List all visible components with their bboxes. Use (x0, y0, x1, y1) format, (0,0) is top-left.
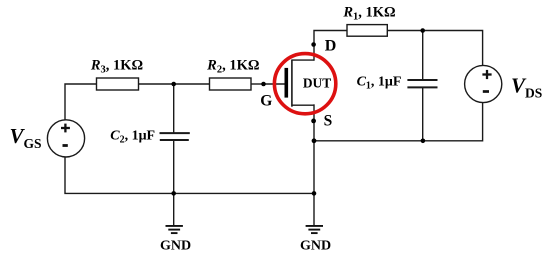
ground GND1 (160, 226, 191, 254)
svg-text:G: G (260, 93, 272, 110)
wire drain up to R1 (314, 31, 347, 61)
wire source vertical (313, 105, 315, 193)
capacitor C2 (110, 129, 190, 146)
ground rail junction dot right (312, 191, 317, 196)
wire R2 to gate node (251, 83, 264, 85)
ground rail junction dot left (171, 191, 176, 196)
red highlight circle (274, 54, 335, 114)
capacitor C1 (357, 75, 438, 92)
drain node dot (311, 42, 316, 47)
wire gate node to MOSFET gate (264, 83, 285, 85)
wire C2 to bottom rail (173, 141, 175, 194)
wire Vds bottom to source rail (314, 103, 483, 141)
wire GND1 stem (173, 193, 175, 225)
wire C1 to source rail (422, 88, 424, 141)
svg-text:R1, 1KΩ: R1, 1KΩ (342, 5, 395, 23)
svg-text:DUT: DUT (303, 75, 331, 90)
voltage source VGS (10, 120, 85, 157)
svg-text:R2, 1KΩ: R2, 1KΩ (206, 57, 259, 75)
resistor R2 (206, 57, 259, 90)
voltage source VDS (465, 65, 543, 102)
source node dot (311, 119, 316, 124)
wire node B down to C1 (422, 31, 424, 80)
wire Vgs top to R3 (65, 84, 97, 120)
svg-text:GND: GND (300, 239, 331, 254)
transistor DUT (MOSFET) (285, 60, 332, 107)
C1 bottom junction dot (421, 139, 426, 144)
svg-text:C1, 1μF: C1, 1μF (357, 75, 402, 92)
node B junction dot (420, 28, 425, 33)
gate node dot (261, 82, 266, 87)
source rail junction dot (312, 138, 317, 143)
wire GND2 stem (313, 193, 315, 225)
resistor R3 (90, 57, 143, 90)
ground GND2 (300, 226, 331, 254)
wire R3 to node A (139, 83, 174, 85)
resistor R1 (342, 5, 395, 37)
svg-text:C2, 1μF: C2, 1μF (110, 129, 155, 146)
wire node A to R2 (174, 83, 210, 85)
wire R1 to node B to Vds top (387, 31, 482, 66)
wire Vgs bottom to ground rail (65, 157, 314, 193)
svg-text:GND: GND (160, 239, 191, 254)
node A junction dot (171, 82, 176, 87)
svg-text:S: S (324, 113, 333, 130)
svg-text:R3, 1KΩ: R3, 1KΩ (90, 57, 143, 75)
svg-text:D: D (325, 38, 337, 55)
wire node A down to C2 (173, 84, 175, 132)
